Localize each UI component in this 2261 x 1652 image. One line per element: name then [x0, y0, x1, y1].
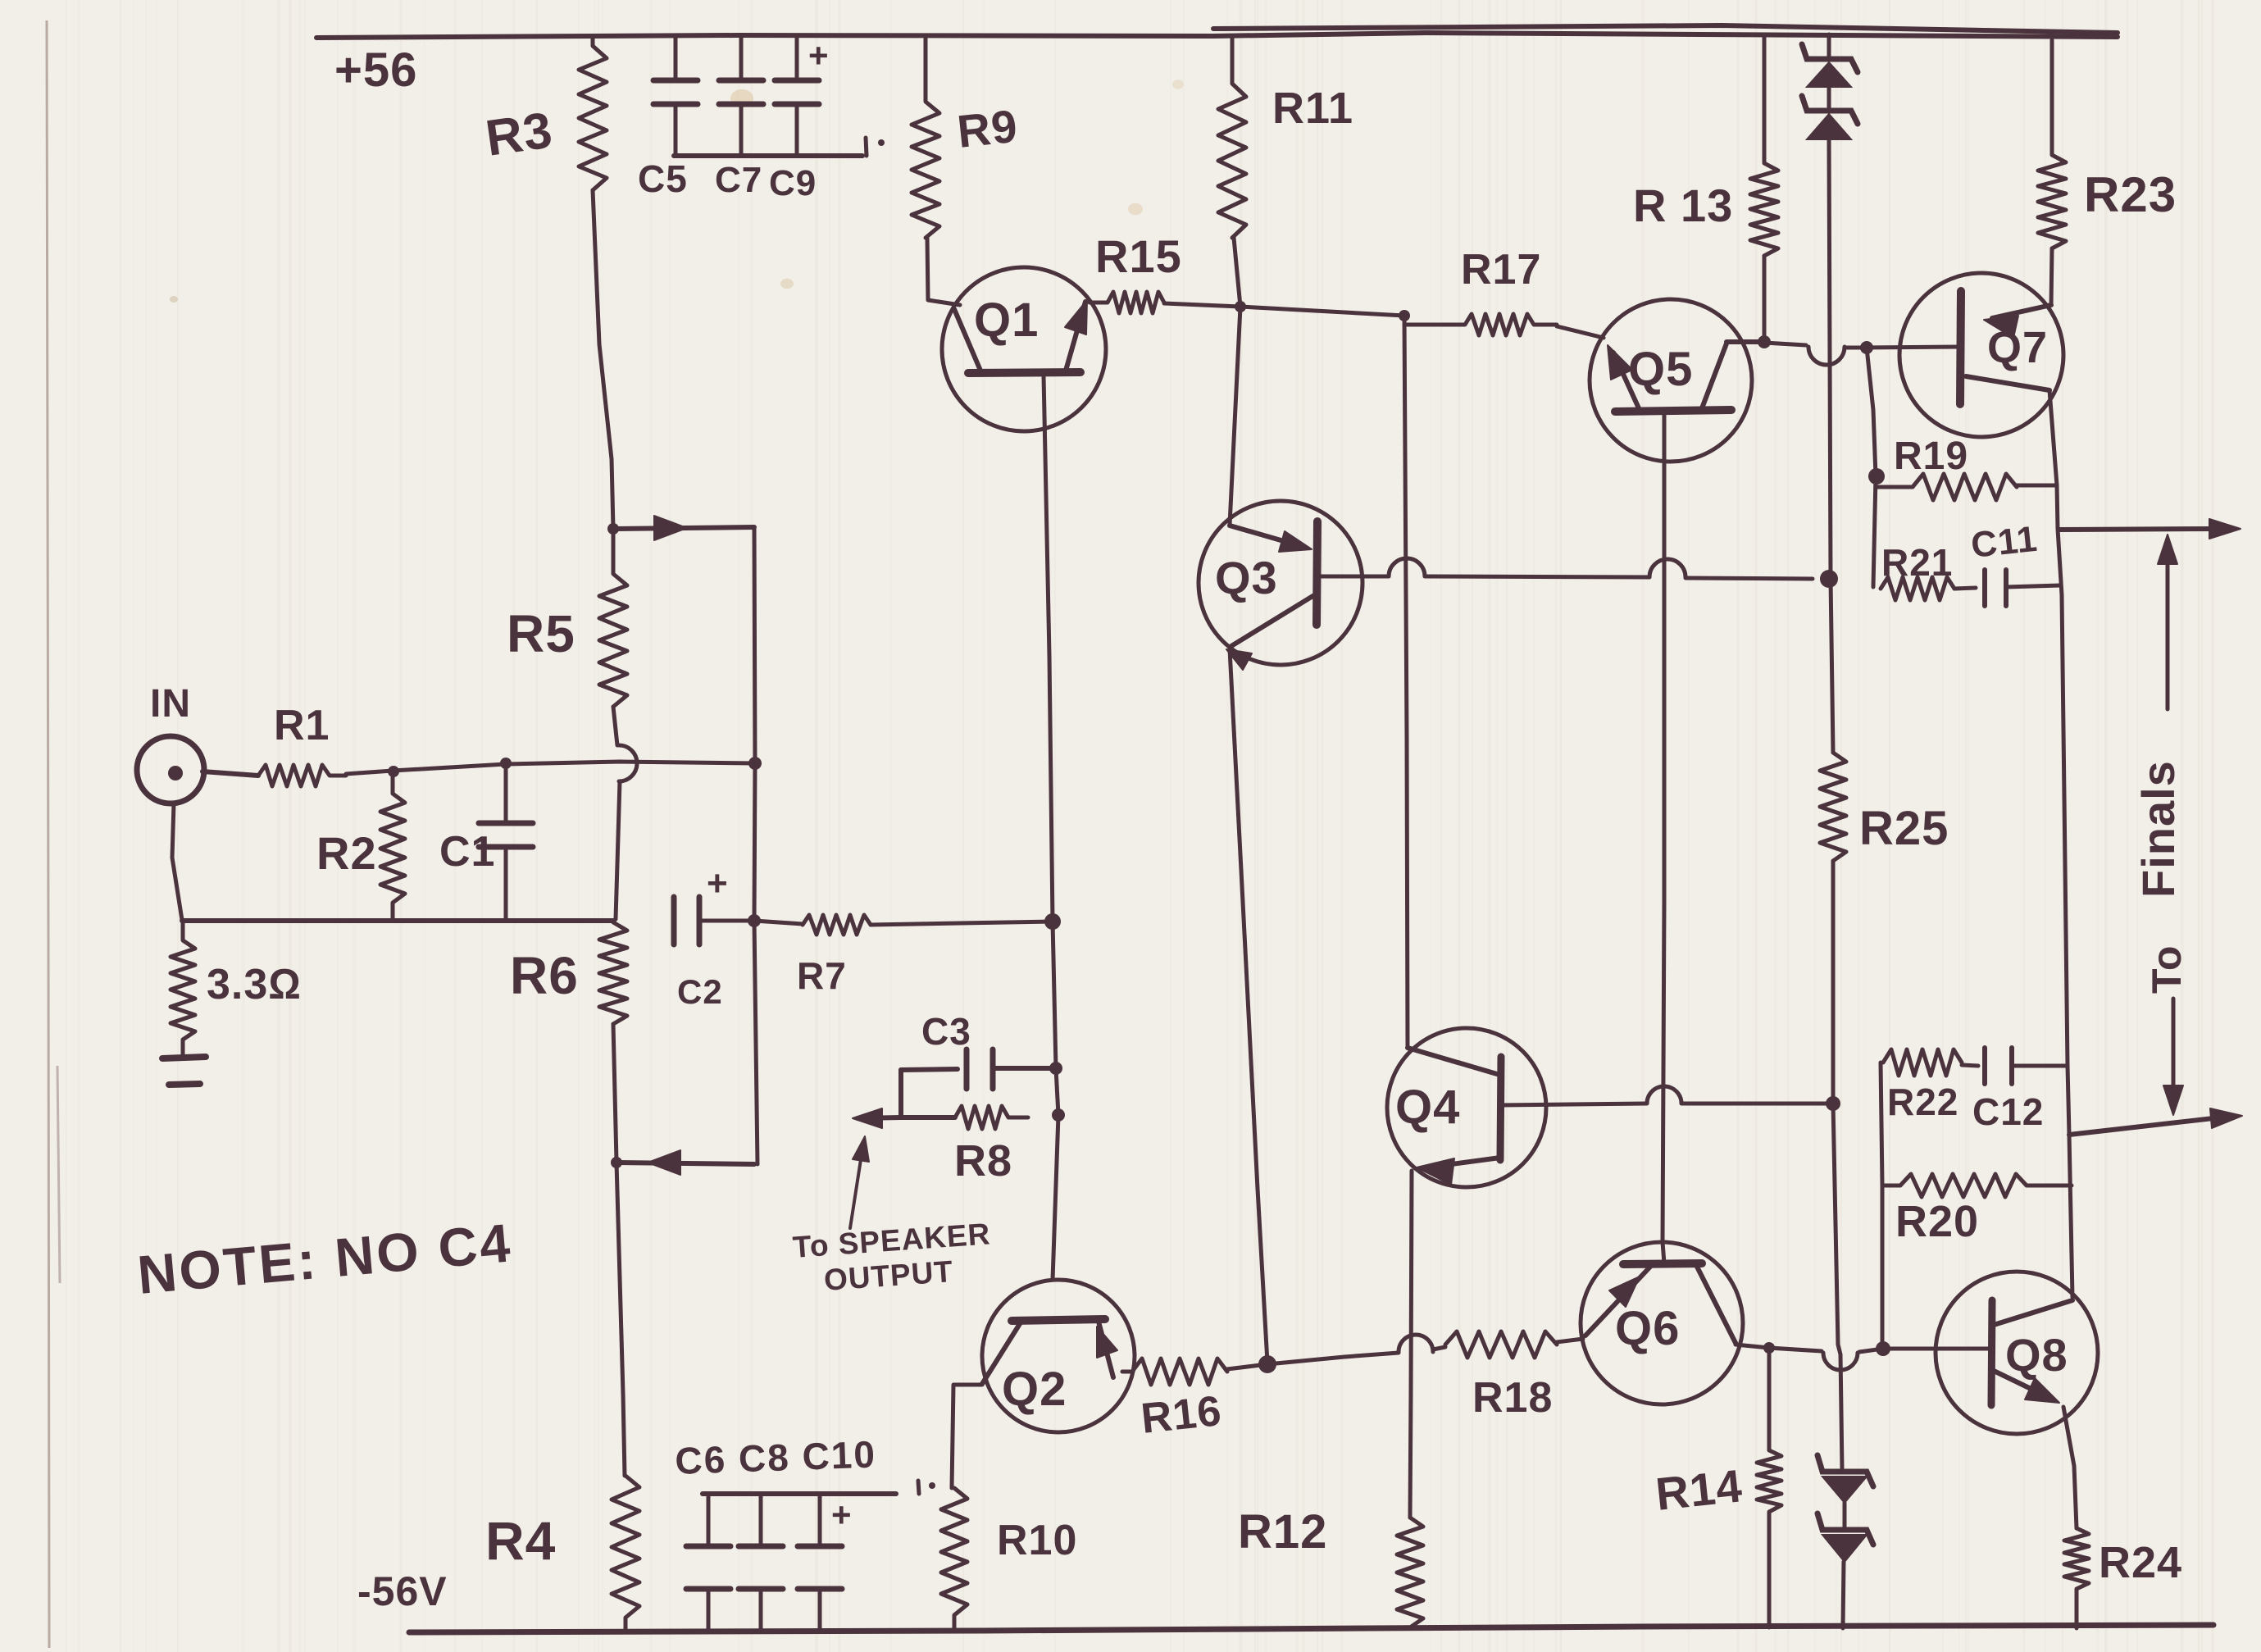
label R15 [1095, 230, 1182, 282]
svg-text:R10: R10 [997, 1517, 1077, 1564]
resistor R3 [579, 38, 607, 190]
resistor R14 [1757, 1348, 1781, 1627]
label IN [150, 682, 191, 726]
transistor Q7 emitter [1966, 376, 2049, 390]
label C9 plus [808, 36, 830, 75]
transistor Q4 circle [1387, 1028, 1546, 1187]
resistor R17 [1404, 314, 1557, 335]
svg-text:3.3Ω: 3.3Ω [207, 961, 302, 1008]
label R4 [485, 1510, 556, 1571]
label R11 [1272, 84, 1353, 133]
wire R13-node hop to Q7 [1764, 343, 1867, 365]
wire R22 bracket vertical [1881, 1063, 1882, 1347]
wire R15 to node [1164, 303, 1240, 307]
label C3 [921, 1010, 971, 1053]
resistor R7 [803, 915, 871, 935]
svg-text:R15: R15 [1095, 230, 1182, 282]
svg-text:C6 C8 C10: C6 C8 C10 [675, 1432, 877, 1482]
resistor R5 [599, 529, 627, 707]
svg-text:+: + [707, 863, 729, 903]
annotation arrow speaker [850, 1136, 869, 1228]
svg-text:C9: C9 [769, 163, 817, 203]
wire Q3 base lead [1317, 558, 1813, 579]
wire node B to R4 [616, 1163, 625, 1476]
transistor Q3 collector [1230, 526, 1312, 552]
label C12 [1972, 1090, 2044, 1133]
label NOTE NO C4 [135, 1212, 515, 1305]
capacitor C7 [719, 35, 763, 154]
annotation arrow lower [2163, 999, 2183, 1115]
label R5 [507, 604, 575, 663]
transistor Q7 circle [1899, 273, 2063, 437]
svg-text:R17: R17 [1461, 246, 1541, 294]
transistor Q1 circle [942, 267, 1106, 431]
label R19 [1894, 435, 1968, 478]
diode arrow D1 [654, 516, 687, 540]
label C10 plus [831, 1495, 853, 1534]
svg-text:R24: R24 [2099, 1538, 2182, 1587]
resistor R4 [612, 1476, 639, 1629]
label C7 [715, 160, 762, 200]
svg-text:R14: R14 [1654, 1459, 1745, 1520]
transistor Q4 base lead [1501, 1086, 1831, 1105]
resistor R2 [380, 771, 405, 921]
svg-text:R1: R1 [274, 702, 330, 749]
label R20 [1895, 1197, 1979, 1246]
wire C3/R8 bracket [898, 1070, 903, 1117]
wire Q5 base down [1663, 414, 1664, 1263]
label Finals rotated [2132, 760, 2184, 898]
transistor Q6 base bar [1623, 1263, 1702, 1264]
node A junction [607, 523, 619, 535]
svg-text:Q5: Q5 [1628, 343, 1693, 396]
label R17 [1461, 246, 1541, 294]
label R22 [1887, 1081, 1958, 1123]
capacitor C5 [653, 37, 698, 154]
scan edge line left [47, 20, 60, 1648]
svg-text:R4: R4 [485, 1510, 556, 1571]
wire +56V top rail [316, 33, 2118, 38]
transistor Q7 collector [1984, 305, 2051, 338]
node Q3 zener junction [1820, 570, 1838, 588]
svg-text:C7: C7 [715, 160, 762, 200]
label C9 [769, 163, 817, 203]
svg-text:R7: R7 [797, 954, 847, 997]
wire C2 to feedback bus [699, 919, 754, 923]
node input junction [388, 766, 399, 777]
node feedback junction [748, 757, 762, 770]
svg-text:R3: R3 [482, 102, 556, 167]
svg-text:R23: R23 [2084, 167, 2177, 222]
node R14 junction [1763, 1342, 1775, 1354]
svg-text:+: + [808, 36, 830, 75]
node Q7 base junction [1860, 341, 1873, 354]
input jack IN circle [137, 736, 204, 803]
wire -56V bottom rail [409, 1625, 2213, 1632]
wire R18 to Q6 [1557, 1339, 1583, 1342]
resistor R6 [599, 922, 627, 1024]
resistor R8 [955, 1106, 1028, 1129]
label R1 [274, 702, 330, 749]
transistor Q5 base bar [1615, 410, 1731, 412]
label R13 [1633, 180, 1733, 231]
wire R1 to node [346, 762, 755, 774]
wire cap bank bus bottom [703, 1491, 896, 1496]
wire node to R18 [1267, 1335, 1445, 1364]
svg-text:Q4: Q4 [1395, 1081, 1460, 1134]
wire R5 hop over input line [613, 707, 637, 781]
wire Q1 base down [1044, 375, 1058, 1280]
ground symbol [162, 1057, 206, 1085]
wire Q8 emitter down [2063, 1407, 2077, 1528]
label +56 [334, 43, 417, 97]
svg-text:C2: C2 [677, 972, 723, 1011]
resistor R16 [1122, 1358, 1227, 1385]
wire Q4 emitter down [1410, 1171, 1412, 1518]
svg-text:R16: R16 [1139, 1387, 1224, 1443]
wire diode arrow lower [616, 1163, 754, 1164]
resistor R22 [1883, 1049, 1962, 1076]
label C11 [1969, 519, 2040, 566]
label R21 [1881, 541, 1953, 584]
label To rotated [2144, 945, 2190, 994]
wire between lower zeners [1843, 1503, 1847, 1528]
transistor Q6 circle [1581, 1242, 1743, 1404]
input jack center dot [168, 766, 183, 780]
transistor Q8 collector [1994, 1300, 2072, 1325]
label C1 [439, 828, 495, 876]
svg-text:R11: R11 [1272, 84, 1353, 133]
node C2 junction [748, 914, 761, 927]
capacitor C9 [775, 35, 819, 154]
svg-text:Q8: Q8 [2005, 1329, 2068, 1381]
label R10 [997, 1517, 1077, 1564]
resistor R24 [2064, 1528, 2089, 1628]
node Q4 feed junction [1399, 310, 1410, 321]
cap bank tick top [866, 138, 885, 156]
transistor Q5 circle [1590, 299, 1752, 462]
zener diode Z1 [1802, 44, 1858, 87]
wire Q2 to R10 [952, 1385, 982, 1488]
node Q4 base zener junction [1826, 1096, 1840, 1111]
wire zener to rail [1843, 1562, 1844, 1628]
resistor R11 [1218, 38, 1246, 238]
resistor R18 [1445, 1331, 1557, 1358]
diode arrow D2 [648, 1150, 680, 1175]
label Q4 [1395, 1081, 1460, 1134]
resistor R20 [1882, 1174, 2072, 1197]
node R19 junction [1868, 468, 1885, 485]
capacitor C2 [674, 897, 699, 944]
resistor R12 [1397, 1518, 1423, 1627]
wire R8 arrow left [853, 1108, 955, 1128]
node C3 junction [1049, 1062, 1062, 1075]
wire ground line [182, 918, 614, 923]
transistor Q8 circle [1936, 1272, 2098, 1434]
capacitor C11 [1954, 570, 2060, 606]
label R25 [1859, 802, 1949, 855]
transistor Q6 emitter [1585, 1267, 1650, 1336]
wire R17 to Q5 [1557, 326, 1604, 338]
node R8 junction [1052, 1108, 1065, 1122]
label R16 [1139, 1387, 1224, 1443]
capacitor C12 [1962, 1048, 2068, 1084]
resistor R13 [1750, 36, 1778, 256]
wire hop to R6 [616, 781, 620, 919]
label C2 plus [707, 863, 729, 903]
resistor R25 [1820, 753, 1846, 861]
resistor R15 [1090, 292, 1164, 313]
svg-text:C5: C5 [638, 157, 688, 200]
svg-text:Q2: Q2 [1002, 1363, 1067, 1416]
label R2 [316, 827, 377, 879]
label Q1 [974, 294, 1039, 347]
node Q8 base junction [1876, 1341, 1890, 1356]
node R13 junction [1758, 335, 1771, 348]
resistor R23 [2038, 40, 2066, 248]
node R16 junction [1258, 1355, 1276, 1373]
svg-text:R12: R12 [1238, 1505, 1327, 1559]
node C1 top junction [500, 758, 512, 769]
label Q3 [1215, 552, 1278, 603]
label Q5 [1628, 343, 1693, 396]
svg-text:C12: C12 [1972, 1090, 2044, 1133]
wire R19 to vertical [2017, 484, 2057, 488]
wire zener bus lower [1833, 861, 1842, 1470]
wire Q6 to Q8 line [1736, 1345, 1883, 1370]
wire Q5 to R13 node [1726, 339, 1764, 344]
wire R3 to node A [593, 190, 613, 529]
svg-text:R5: R5 [507, 604, 575, 663]
node B junction [611, 1157, 622, 1168]
transistor Q4 base bar [1500, 1057, 1501, 1160]
capacitor C6 [686, 1494, 730, 1630]
resistor R21 [1881, 577, 1954, 600]
svg-text:R21: R21 [1881, 541, 1953, 584]
transistor Q1 collector [954, 309, 980, 371]
transistor Q2 circle [982, 1280, 1135, 1432]
svg-text:R20: R20 [1895, 1197, 1979, 1246]
transistor Q4 emitter [1417, 1158, 1500, 1185]
transistor Q8 emitter [1994, 1371, 2059, 1403]
svg-text:R2: R2 [316, 827, 377, 879]
capacitor C8 [739, 1494, 783, 1630]
transistor Q2 collector [982, 1322, 1021, 1384]
wire node to R17 [1240, 307, 1404, 316]
svg-text:C3: C3 [921, 1010, 971, 1053]
label R14 [1654, 1459, 1745, 1520]
resistor R10 [941, 1488, 967, 1628]
svg-text:Finals: Finals [2132, 760, 2184, 898]
wire feedback bus [754, 527, 757, 1164]
label C5 [638, 157, 688, 200]
wire R6 to node B [613, 1024, 616, 1162]
label OUTPUT [823, 1254, 955, 1297]
capacitor C3 [901, 1049, 1056, 1089]
wire to Q7 base [1867, 347, 1959, 348]
wire diode arrow upper [613, 527, 754, 529]
wire IN to R1 [202, 771, 258, 776]
svg-text:Q7: Q7 [1987, 323, 2048, 372]
wire between zeners [1827, 87, 1831, 109]
svg-text:C1: C1 [439, 828, 495, 876]
transistor Q6 collector [1697, 1267, 1736, 1343]
wire zener bus middle [1829, 139, 1833, 753]
wire to R7 [754, 921, 803, 924]
transistor Q1 emitter [1065, 300, 1087, 371]
svg-text:Q6: Q6 [1615, 1302, 1680, 1355]
svg-text:+56: +56 [334, 43, 417, 97]
annotation arrow upper [2158, 535, 2177, 709]
resistor R19 [1877, 474, 2017, 500]
resistor R9 [912, 38, 939, 238]
label -56V [357, 1568, 448, 1614]
transistor Q3 circle [1199, 501, 1363, 665]
wire Q3 emitter down [1230, 649, 1267, 1363]
node R7 junction [1044, 913, 1061, 930]
wire R23 to Q7 [2051, 248, 2052, 305]
label R23 [2084, 167, 2177, 222]
svg-text:R8: R8 [954, 1136, 1012, 1186]
label Q8 [2005, 1329, 2068, 1381]
svg-text:C11: C11 [1969, 519, 2040, 566]
wire Q7 emitter down [2049, 390, 2072, 1297]
wire IN sleeve down [172, 803, 182, 920]
label R3 [482, 102, 556, 167]
wire R19 bracket vertical [1867, 348, 1876, 476]
zener diode Z2 [1802, 96, 1858, 139]
zener diode Z4 [1817, 1513, 1873, 1562]
transistor Q8 base bar [1991, 1300, 1992, 1405]
wire output bottom arrow [2069, 1108, 2242, 1135]
svg-text:R25: R25 [1859, 802, 1949, 855]
wire R13 to node [1763, 256, 1767, 342]
wire R7 to Q-line [871, 922, 1053, 925]
transistor Q4 collector [1408, 1048, 1497, 1074]
wire R9 to Q1 [927, 238, 960, 305]
wire node to Q4 collector [1404, 316, 1408, 1048]
svg-text:IN: IN [150, 682, 191, 726]
svg-text:+: + [831, 1495, 853, 1534]
label R24 [2099, 1538, 2182, 1587]
transistor Q1 base bar [968, 372, 1080, 373]
label R18 [1472, 1374, 1553, 1422]
resistor R1 [258, 765, 346, 786]
capacitor C10 [798, 1494, 842, 1630]
label Q2 [1002, 1363, 1067, 1416]
svg-text:R19: R19 [1894, 435, 1968, 478]
svg-text:To: To [2144, 945, 2190, 994]
svg-text:R6: R6 [510, 946, 579, 1005]
transistor Q5 collector [1702, 344, 1726, 408]
wire cap bank bus top [674, 153, 862, 158]
label C6 C8 C10 [675, 1432, 877, 1482]
svg-text:Q1: Q1 [974, 294, 1039, 347]
svg-text:Q3: Q3 [1215, 552, 1278, 603]
svg-text:-56V: -56V [357, 1568, 448, 1614]
label R12 [1238, 1505, 1327, 1559]
label Q6 [1615, 1302, 1680, 1355]
label To SPEAKER [792, 1217, 992, 1264]
transistor Q7 base bar [1960, 291, 1961, 404]
wire output top arrow [2059, 519, 2241, 539]
capacitor C1 [479, 764, 533, 919]
svg-text:R9: R9 [955, 100, 1021, 157]
svg-text:R 13: R 13 [1633, 180, 1733, 231]
wire top rail double stroke [1213, 25, 2118, 33]
transistor Q3 base bar [1317, 521, 1317, 625]
label Q7 [1987, 323, 2048, 372]
label R9 [955, 100, 1021, 157]
wire R16 to node [1227, 1364, 1267, 1369]
label R8 [954, 1136, 1012, 1186]
cap bank tick bottom [918, 1481, 935, 1494]
label R6 [510, 946, 579, 1005]
label C2 [677, 972, 723, 1011]
wire R19 to R21 vertical [1873, 476, 1876, 587]
zener diode Z3 [1817, 1455, 1873, 1503]
node R15/R11 junction [1235, 301, 1246, 312]
transistor Q2 base bar [1012, 1319, 1105, 1321]
transistor Q3 emitter [1226, 595, 1314, 670]
transistor Q2 emitter [1097, 1322, 1117, 1377]
resistor 3.3ohm [171, 921, 195, 1056]
svg-text:R18: R18 [1472, 1374, 1553, 1422]
transistor Q5 emitter [1608, 345, 1639, 408]
wire zener bus top [1827, 34, 1831, 57]
wire R11 to Q3 [1230, 238, 1240, 525]
wire to Q8 base [1883, 1347, 1990, 1351]
label R7 [797, 954, 847, 997]
label 3.3ohm [207, 961, 302, 1008]
svg-text:R22: R22 [1887, 1081, 1958, 1123]
